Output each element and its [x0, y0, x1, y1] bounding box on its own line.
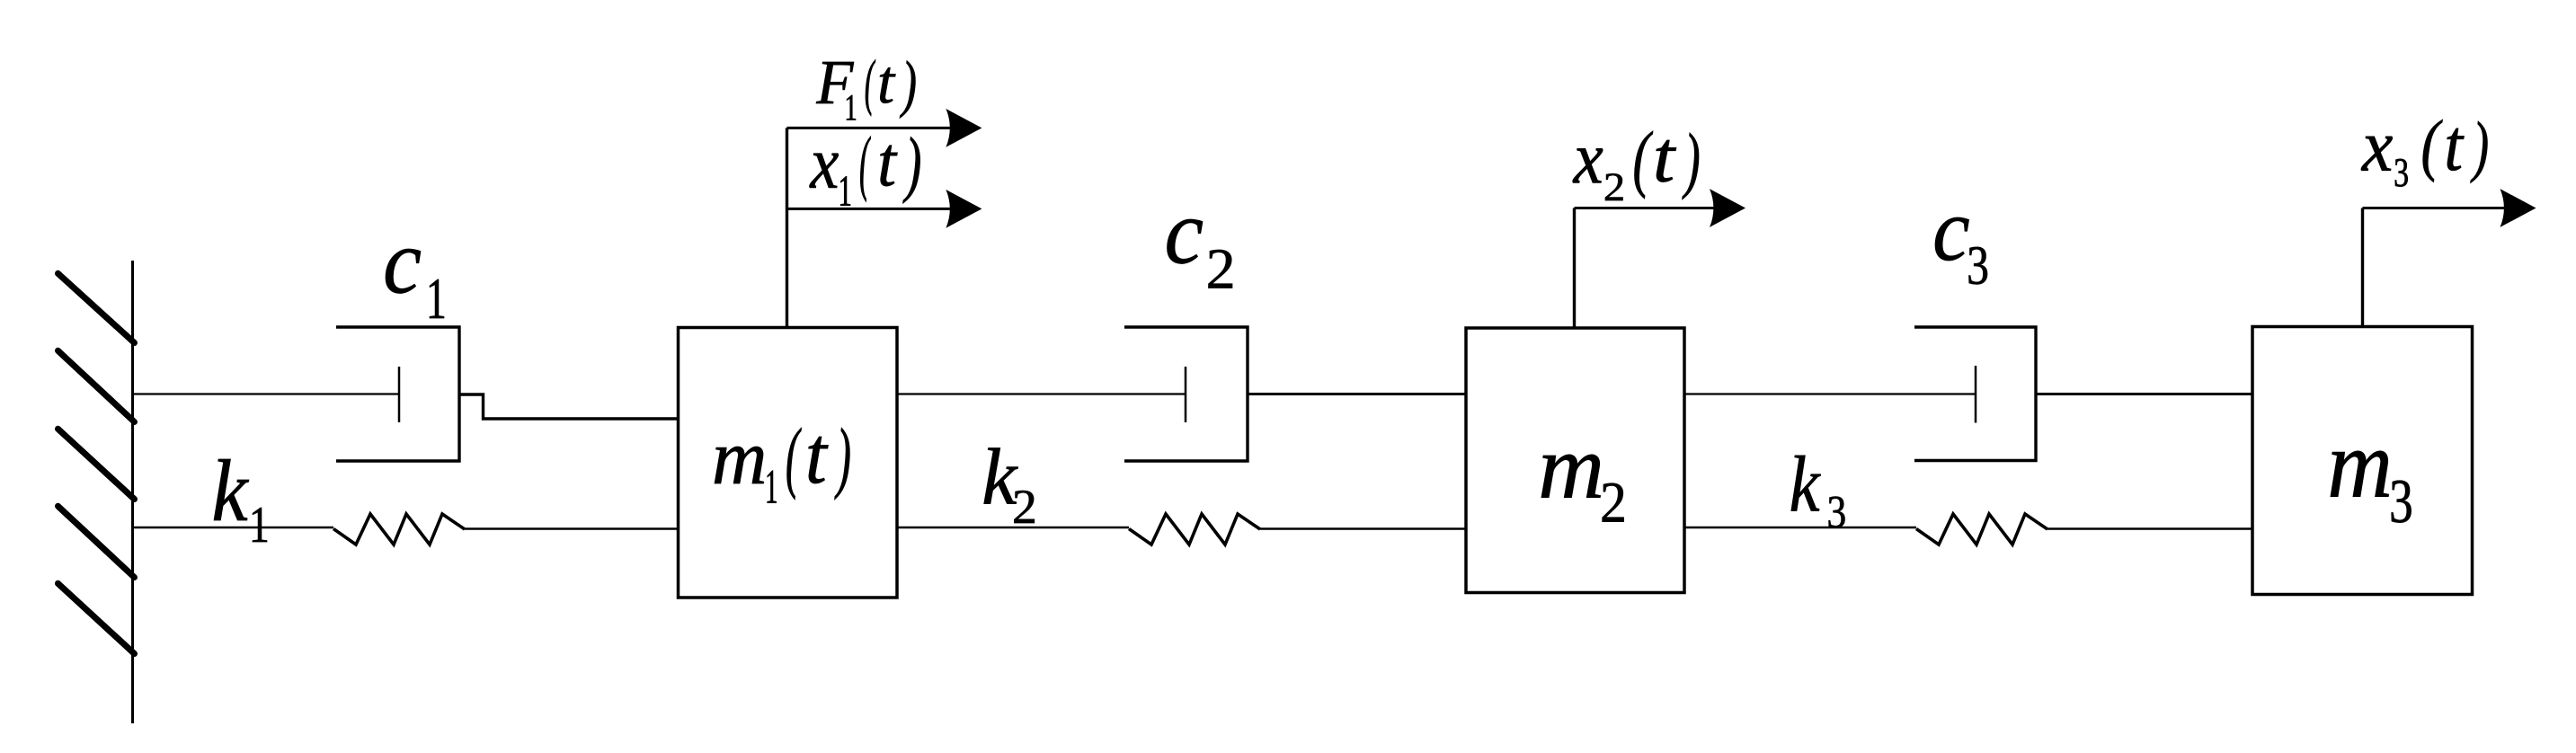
- displacement x3 arrowhead: [2500, 189, 2536, 227]
- force F1 arrowhead: [946, 109, 982, 147]
- label m1(t): [715, 428, 849, 503]
- displacement x3 arrow line: [2363, 207, 2509, 209]
- force F1 arrow line: [787, 127, 954, 129]
- wire: damper c3 output to mass m3: [2036, 393, 2253, 395]
- wire: damper c2 output to mass m2: [1248, 393, 1467, 395]
- label x3(t): [2361, 120, 2488, 187]
- wire: stem above mass m3: [2361, 208, 2364, 327]
- label k1: [214, 459, 267, 542]
- label c3: [1935, 217, 1987, 284]
- label k3: [1791, 456, 1845, 528]
- wire: spring k2 to mass m2: [1260, 527, 1467, 529]
- damper C3 cylinder: [1914, 327, 2036, 461]
- wire: spring k1 to mass m1: [465, 527, 680, 529]
- mass M1 box: [679, 328, 898, 598]
- wire: damper c1 output jog to mass m1: [459, 393, 680, 419]
- wire: wall to spring k1: [133, 527, 334, 528]
- label m2: [1541, 455, 1624, 522]
- spring K3 zigzag: [1916, 514, 2047, 545]
- label c1: [386, 249, 444, 318]
- mass M3 box: [2252, 327, 2473, 595]
- ground hatch 3: [58, 429, 135, 499]
- ground wall line: [131, 261, 134, 723]
- displacement x1 arrow line: [787, 208, 954, 210]
- label x2(t): [1573, 131, 1699, 200]
- ground hatch 2: [58, 350, 135, 421]
- wire: mass m2 to damper c3 piston rod: [1684, 393, 1976, 394]
- wire: spring k3 to mass m3: [2047, 527, 2253, 529]
- wire: wall to damper c1 piston rod: [133, 393, 400, 394]
- damper C1 cylinder: [336, 327, 459, 461]
- damper C3 piston plate: [1975, 366, 1977, 423]
- ground hatch 1: [58, 273, 135, 342]
- mass M2 box: [1466, 328, 1684, 593]
- spring K2 zigzag: [1129, 514, 1260, 545]
- wire: mass m1 to damper c2 piston rod: [897, 393, 1186, 394]
- ground hatch 4: [58, 506, 135, 577]
- label m3: [2331, 451, 2412, 523]
- label x1(t): [810, 137, 920, 206]
- damper C2 cylinder: [1124, 327, 1248, 461]
- wire: mass m1 to spring k2: [897, 527, 1129, 528]
- displacement x2 arrow line: [1575, 207, 1718, 209]
- label F1(t): [816, 59, 915, 120]
- label k2: [984, 448, 1035, 524]
- damper C1 piston plate: [398, 367, 401, 422]
- wire: stem above mass m2: [1573, 208, 1576, 329]
- ground hatch 5: [58, 583, 135, 653]
- label c2: [1168, 219, 1233, 288]
- displacement x1 arrowhead: [946, 190, 982, 228]
- spring K1 zigzag: [333, 514, 465, 545]
- displacement x2 arrowhead: [1710, 189, 1745, 227]
- damper C2 piston plate: [1185, 367, 1187, 422]
- wire: mass m2 to spring k3: [1684, 527, 1916, 528]
- wire: stem above mass m1: [786, 128, 788, 327]
